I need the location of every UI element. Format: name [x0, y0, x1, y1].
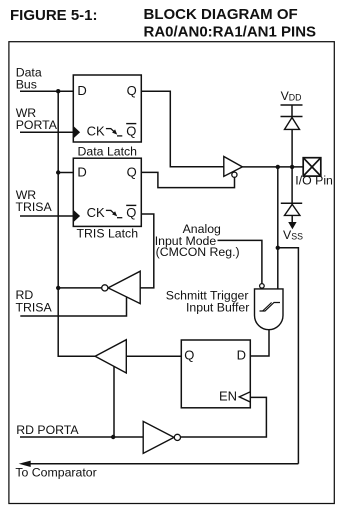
svg-text:To Comparator: To Comparator: [15, 465, 96, 479]
svg-text:TRISA: TRISA: [16, 200, 53, 214]
node TRIS D junction: [56, 170, 60, 174]
I/O pin box: [303, 158, 321, 176]
falling edge symbol (tris latch): [106, 210, 122, 217]
svg-text:CK: CK: [87, 205, 105, 220]
node comparator branch: [276, 246, 280, 250]
node RD PORTA junction: [111, 435, 115, 439]
wire output buffer to I/O pin: [242, 166, 303, 168]
wire schmitt output to latch D: [250, 330, 269, 356]
latch U2 TRIS Latch box: [73, 158, 141, 226]
svg-text:RD PORTA: RD PORTA: [16, 423, 79, 437]
wire read buffer enable: [113, 366, 115, 437]
wire RD PORTA: [20, 436, 143, 438]
wire WR TRISA: [20, 215, 73, 217]
bubble RD PORTA inverter: [174, 434, 180, 440]
svg-text:TRISA: TRISA: [16, 300, 53, 314]
svg-text:Q: Q: [126, 205, 136, 220]
svg-text:Q: Q: [126, 123, 136, 138]
svg-text:I/O Pin: I/O Pin: [295, 174, 333, 188]
enable bubble of output buffer: [232, 172, 237, 177]
pin CK clock wedge (tris latch): [73, 210, 80, 223]
svg-text:Q: Q: [127, 165, 137, 180]
wire I/O node to schmitt input: [277, 167, 279, 289]
svg-text:Q: Q: [184, 347, 194, 362]
node output junction: [276, 165, 280, 169]
data bus vertical wire: [58, 91, 95, 356]
schmitt trigger gate U7: [255, 289, 284, 330]
wire read buffer input from latch Q: [126, 355, 181, 357]
op-amp U8 RD PORTA inverter: [143, 421, 174, 453]
svg-text:Q: Q: [127, 83, 137, 98]
pin EN triangle: [239, 392, 250, 402]
wire data bus: [20, 90, 73, 92]
node diode column junction: [290, 165, 294, 169]
wire VDD bar to diode: [291, 105, 293, 117]
wire comparator branch down right side: [278, 248, 299, 464]
svg-text:(CMCON Reg.): (CMCON Reg.): [156, 245, 240, 259]
wire I/O node down to diode D2: [291, 167, 293, 203]
ground VSS arrow: [288, 222, 296, 229]
op-amp U3 tri-state output buffer: [224, 157, 243, 177]
wire To Comparator: [31, 463, 299, 465]
svg-text:BLOCK DIAGRAM OF: BLOCK DIAGRAM OF: [144, 6, 298, 23]
wire RD PORTA inverter output to EN: [181, 397, 267, 437]
wire TRIS Qbar to RD TRISA buffer input: [140, 214, 154, 288]
power VDD rail bar: [281, 104, 303, 106]
bubble RD TRISA inverter: [102, 285, 108, 291]
svg-text:D: D: [237, 347, 246, 362]
svg-text:PORTA: PORTA: [16, 118, 58, 132]
bubble schmitt top: [260, 284, 265, 289]
svg-text:D: D: [77, 83, 86, 98]
svg-text:CK: CK: [87, 123, 105, 138]
latch U1 Data Latch box: [73, 75, 141, 142]
node bus RD TRISA junction: [56, 286, 60, 290]
op-amp U4 RD TRISA tri-state inverter (points left): [108, 271, 140, 303]
arrowhead To Comparator: [19, 461, 31, 467]
svg-text:TRIS Latch: TRIS Latch: [77, 227, 139, 241]
diode D2 to VSS cathode bar: [281, 202, 302, 204]
wire RD TRISA enable: [20, 297, 126, 316]
svg-text:D: D: [77, 165, 86, 180]
wire analog input mode to schmitt bubble: [218, 240, 262, 283]
diode D2 triangle: [285, 204, 300, 215]
node data bus junction: [56, 89, 60, 93]
svg-text:Bus: Bus: [16, 77, 37, 91]
wire WR PORTA: [20, 131, 73, 133]
wire TRIS latch Q to buffer enable: [141, 172, 234, 187]
wire diode D2 to VSS arrow: [291, 215, 293, 222]
latch U6 input latch box: [181, 340, 250, 408]
svg-text:FIGURE 5-1:: FIGURE 5-1:: [10, 7, 98, 24]
svg-text:RA0/AN0:RA1/AN1 PINS: RA0/AN0:RA1/AN1 PINS: [144, 23, 317, 40]
diode D1 triangle: [285, 118, 300, 130]
svg-text:EN: EN: [219, 389, 237, 404]
wire data latch Q to output buffer: [141, 91, 224, 167]
falling edge symbol (data latch): [106, 129, 122, 136]
diode D1 to VDD cathode bar: [281, 116, 303, 118]
wire TRIS latch D input: [58, 172, 73, 174]
wire RD TRISA inverter output to bus: [58, 287, 101, 289]
svg-text:Input Buffer: Input Buffer: [186, 301, 249, 315]
hysteresis symbol: [260, 303, 281, 312]
pin CK clock wedge (data latch): [73, 126, 80, 139]
svg-text:Data Latch: Data Latch: [78, 144, 138, 158]
wire diode D1 to I/O node: [291, 129, 293, 167]
op-amp U5 read buffer (points left): [95, 340, 126, 373]
